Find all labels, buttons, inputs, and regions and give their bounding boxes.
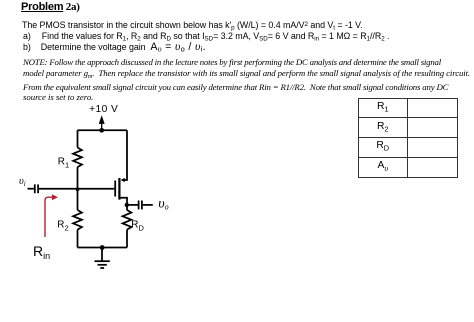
node: ground junction dot — [100, 245, 105, 250]
node: drain junction dot — [125, 203, 129, 207]
wire: drain to output capacitor — [127, 204, 138, 206]
resistor RD — [123, 210, 132, 230]
wire: RD bottom to ground rail — [126, 230, 128, 248]
wire: R2 bottom to ground rail — [77, 230, 79, 248]
paragraph line 1 — [22, 20, 363, 31]
svg-text:Rin: Rin — [33, 243, 50, 261]
capacitor Cin — [35, 184, 38, 193]
svg-text:υo: υo — [158, 196, 168, 211]
table row Av — [359, 158, 409, 177]
item a) — [23, 31, 389, 42]
wire: input capacitor to gate — [39, 188, 114, 190]
table row R2 — [359, 118, 409, 138]
Rin arrow (red) — [45, 194, 58, 237]
wire: R1 bottom to gate node — [77, 167, 79, 189]
drain lead — [121, 198, 128, 205]
wire: bottom rail — [78, 247, 128, 249]
node: gate junction dot — [76, 187, 80, 191]
transistor Q1 (PMOS) — [115, 130, 127, 205]
ground — [95, 248, 110, 269]
wire: gate node down to R2 — [77, 189, 79, 210]
svg-text:+10 V: +10 V — [89, 104, 118, 115]
resistor R1 — [73, 148, 82, 168]
wire: output capacitor to vo — [143, 204, 153, 206]
capacitor Cout — [139, 201, 142, 210]
wire: top rail — [78, 129, 128, 131]
wire: left vertical upper (rail to R1) — [77, 130, 79, 147]
supply arrow — [99, 115, 105, 130]
svg-text:R2: R2 — [57, 220, 68, 233]
table row R1 — [359, 99, 409, 119]
table row RD — [359, 138, 409, 158]
NOTE paragraph — [23, 57, 470, 103]
svg-text:υi: υi — [19, 176, 26, 188]
wire: vi lead to input capacitor — [28, 188, 34, 190]
item b) — [23, 41, 206, 54]
source lead with arrow — [124, 130, 127, 180]
svg-text:RD: RD — [131, 219, 144, 232]
title: Problem 2a) — [21, 1, 80, 13]
channel bar — [118, 178, 120, 200]
svg-text:R1: R1 — [58, 156, 69, 169]
gate bar — [114, 181, 116, 197]
wire: drain node to RD — [126, 205, 128, 210]
answer table — [358, 98, 458, 179]
node: supply junction dot — [99, 128, 104, 133]
resistor R2 — [73, 210, 82, 230]
